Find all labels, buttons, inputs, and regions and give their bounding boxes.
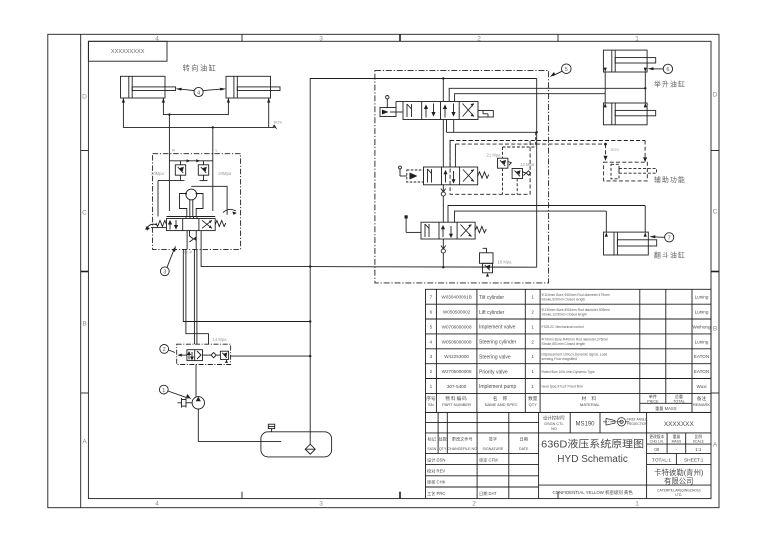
svg-text:Displacement 100cc/r,Dynamic s: Displacement 100cc/r,Dynamic signal, Loa… (542, 352, 608, 356)
parts table text (426, 293, 711, 412)
main relief valve 18 Mpa (480, 248, 494, 276)
svg-text:1: 1 (531, 295, 534, 300)
port arrow right cylinder B (267, 98, 270, 103)
svg-text:CHANGEFILE NO: CHANGEFILE NO (448, 447, 478, 451)
tilt valve pilot (405, 215, 422, 232)
svg-text:6: 6 (666, 67, 669, 73)
svg-text:校对 REV: 校对 REV (427, 468, 445, 475)
wire lift T legs (447, 120, 537, 133)
svg-text:W0706000008: W0706000008 (442, 324, 472, 329)
svg-text:SIGN: SIGN (427, 447, 436, 451)
svg-text:W2705000008: W2705000008 (442, 369, 472, 374)
node priority EF junction (309, 355, 311, 357)
svg-text:Gear type,97cc/r Fixed flow: Gear type,97cc/r Fixed flow (542, 385, 584, 389)
svg-text:-: - (676, 447, 678, 452)
svg-text:NO: NO (551, 427, 557, 431)
lift cylinder lower (603, 103, 655, 125)
svg-text:1: 1 (531, 354, 534, 359)
lift valve V1 body (403, 102, 478, 120)
svg-text:QTY: QTY (439, 447, 447, 451)
balloon 3 steering valve callout (160, 246, 175, 276)
svg-text:EATON: EATON (694, 354, 709, 359)
svg-text:7: 7 (668, 236, 671, 242)
priority valve check and relief (203, 351, 229, 363)
priority valve spool (177, 350, 202, 361)
svg-text:Luning: Luning (695, 295, 709, 300)
steering cylinder right (226, 76, 280, 98)
svg-text:2: 2 (472, 501, 476, 508)
wire aux A dashed to attachment (450, 140, 645, 142)
svg-text:W030400001B: W030400001B (441, 295, 471, 300)
svg-text:18 Mpa: 18 Mpa (498, 259, 513, 264)
balloon 6 lift cylinder callout (648, 64, 673, 73)
implement valve U5 enclosure (375, 71, 549, 283)
balloon 1 pump callout (159, 385, 191, 399)
wire aux A dashed drop (643, 141, 647, 163)
node L line junction (212, 126, 214, 128)
svg-text:L: L (216, 148, 219, 153)
wire lift P from supply (442, 79, 444, 102)
lift cylinder upper (603, 50, 655, 72)
svg-text:NAME AND SPEC: NAME AND SPEC (485, 402, 518, 407)
wire lift cylinders parallel left (604, 72, 606, 103)
frame inner border (88, 41, 711, 498)
svg-text:W050500002: W050500002 (443, 310, 471, 315)
node return-T junction (309, 265, 311, 267)
svg-text:DATE: DATE (519, 447, 529, 451)
wire tilt B drop (605, 211, 607, 232)
zone ticks (81, 34, 719, 498)
SOS signal arrow (273, 120, 283, 130)
spring right of spool (215, 221, 226, 227)
svg-text:B: B (82, 321, 86, 328)
title block grid (426, 412, 712, 498)
svg-text:C: C (82, 210, 87, 217)
first angle projection symbol (603, 418, 629, 426)
svg-text:Stroke,1226mm Closed length: Stroke,1226mm Closed length (542, 312, 588, 316)
svg-text:Steering cylinder: Steering cylinder (479, 340, 517, 346)
node return-tankleg junction (309, 320, 311, 322)
svg-text:Steering valve: Steering valve (479, 355, 511, 361)
svg-text:更改文件号: 更改文件号 (452, 435, 473, 442)
port arrow right cylinder A (227, 98, 230, 103)
node P rail bottom junction (442, 266, 444, 268)
svg-text:重量 MASS: 重量 MASS (655, 405, 677, 412)
svg-text:1: 1 (162, 388, 165, 394)
svg-text:SOS: SOS (274, 120, 283, 125)
svg-text:XXXXXXXXX: XXXXXXXXX (111, 49, 145, 55)
svg-text:MS190: MS190 (575, 421, 595, 427)
svg-text:PROJECTION: PROJECTION (627, 422, 648, 426)
aux attachment cylinder dashed (611, 164, 657, 179)
svg-text:处数: 处数 (439, 435, 448, 442)
port arrows lift cylinders (604, 68, 647, 108)
svg-text:Tilt cylinder: Tilt cylinder (479, 295, 504, 301)
steering valve U3 enclosure (153, 154, 241, 250)
svg-text:sensing,Flow magnified: sensing,Flow magnified (542, 357, 578, 361)
balloon 5 implement valve callout (550, 64, 571, 77)
svg-text:SIGNATURE: SIGNATURE (483, 447, 504, 451)
svg-text:636D液压系统原理图: 636D液压系统原理图 (541, 438, 644, 451)
svg-text:MASS: MASS (672, 440, 682, 444)
port arrows tilt cylinder (605, 232, 647, 237)
svg-text:设计 DSN: 设计 DSN (427, 456, 445, 463)
svg-text:1: 1 (430, 384, 433, 389)
pilot arc left (146, 224, 167, 231)
svg-text:MATERIAL: MATERIAL (580, 402, 600, 407)
svg-text:4: 4 (430, 339, 433, 344)
wire aux B up (454, 144, 456, 167)
balloon 4 steering cylinder callout (176, 87, 226, 96)
check valve on P rail below tilt valve (441, 246, 446, 254)
svg-text:SOS: SOS (611, 147, 620, 152)
svg-text:1: 1 (531, 324, 534, 329)
svg-text:总重: 总重 (675, 393, 683, 399)
tank breather (268, 424, 274, 432)
node aux SOS junction (604, 143, 607, 146)
svg-text:审核 CHK: 审核 CHK (427, 479, 446, 486)
svg-text:TOTAL:1: TOTAL:1 (652, 458, 671, 464)
svg-text:Rated flow 100L/min,Dynamic Ty: Rated flow 100L/min,Dynamic Type (542, 370, 595, 374)
svg-text:Stroke,929mm Closed length: Stroke,929mm Closed length (542, 298, 586, 302)
aux valve pilot box (399, 166, 424, 182)
title block text (427, 414, 705, 497)
wire cylinder rod-side loop (163, 98, 228, 115)
wire R port down to steering valve (168, 115, 170, 155)
svg-text:CATERPILLAR(QINGZHOU): CATERPILLAR(QINGZHOU) (657, 488, 700, 492)
svg-text:Φ110mm Bore,Φ60mm Rod diameter: Φ110mm Bore,Φ60mm Rod diameter,479mm (542, 293, 610, 297)
svg-text:6: 6 (430, 310, 433, 315)
tilt cylinder (604, 232, 657, 255)
svg-text:CHG LVL: CHG LVL (650, 440, 664, 444)
wire lift cylinders parallel right (644, 72, 646, 103)
wire main return / supply riser (310, 79, 537, 445)
spring right of tilt valve (475, 226, 486, 232)
revision box top-left (88, 41, 167, 61)
wire aux A up (449, 141, 451, 168)
svg-text:转向油缸: 转向油缸 (183, 64, 218, 73)
svg-text:2: 2 (477, 36, 481, 43)
wire steering P supply pair (194, 249, 197, 344)
svg-text:14 Mpa: 14 Mpa (213, 337, 228, 342)
svg-text:3: 3 (319, 501, 323, 508)
check valve pair below spool (187, 231, 201, 250)
wire lift B to cylinders (455, 94, 606, 102)
svg-text:卡特彼勒(青州): 卡特彼勒(青州) (654, 468, 703, 477)
relief valve 20Mpa left (175, 165, 185, 181)
svg-text:Lift cylinder: Lift cylinder (479, 310, 505, 316)
svg-text:比例: 比例 (695, 434, 703, 439)
svg-text:B: B (713, 326, 717, 333)
wire lift A to cylinders (449, 88, 645, 101)
aux relief block enclosure (450, 141, 530, 195)
svg-text:Luning: Luning (695, 339, 709, 344)
svg-text:Weihong: Weihong (692, 324, 710, 329)
node lift T rail junction (536, 131, 538, 133)
svg-text:PART NUMBER: PART NUMBER (442, 402, 471, 407)
svg-text:SCALE: SCALE (693, 440, 705, 444)
svg-text:1: 1 (531, 369, 534, 374)
svg-text:4: 4 (197, 90, 200, 96)
svg-text:XXXXXXX: XXXXXXX (664, 421, 695, 428)
balloon 7 tilt cylinder callout (649, 233, 673, 242)
wire tilt B to cylinder (455, 211, 607, 222)
svg-text:T L P: T L P (183, 250, 193, 255)
svg-text:DSGN CTL: DSGN CTL (544, 422, 563, 426)
suction strainer (305, 444, 315, 454)
svg-text:设计控制号: 设计控制号 (543, 414, 566, 421)
svg-text:2: 2 (430, 369, 433, 374)
svg-text:20Mpa: 20Mpa (218, 171, 231, 176)
svg-text:A: A (82, 439, 87, 446)
check valve on P rail below aux valve (441, 189, 446, 197)
svg-text:2: 2 (531, 310, 534, 315)
wire aux B dashed to attachment (455, 143, 605, 145)
node lift A junction (644, 87, 646, 89)
wire steering T return to tank line (201, 243, 310, 267)
tilt valve V3 body (421, 222, 475, 239)
svg-text:2: 2 (163, 347, 166, 353)
parts table header (426, 393, 710, 412)
node R line junction (168, 113, 170, 115)
svg-text:HYD Schematic: HYD Schematic (557, 454, 628, 465)
aux valve V2 body (424, 167, 478, 185)
port arrow left cylinder A (122, 98, 125, 103)
svg-text:307-5400: 307-5400 (447, 384, 467, 389)
svg-text:7: 7 (430, 295, 433, 300)
svg-text:CONFIDENTIAL YELLOW 机密级别 黄色: CONFIDENTIAL YELLOW 机密级别 黄色 (552, 489, 633, 496)
svg-text:物料编码: 物料编码 (445, 395, 467, 402)
parts table grid (426, 289, 712, 412)
priority valve U2 enclosure (177, 344, 231, 364)
svg-text:审定 CFM: 审定 CFM (479, 456, 498, 463)
svg-text:TOTAL: TOTAL (673, 399, 685, 403)
svg-text:3: 3 (319, 36, 323, 43)
svg-text:W0506000008: W0506000008 (442, 339, 472, 344)
svg-text:D: D (713, 92, 718, 99)
lift valve detent (478, 111, 493, 118)
wire pump to priority valve (195, 365, 197, 397)
svg-text:D: D (82, 94, 87, 101)
aux relief block dashed pipes (503, 132, 536, 194)
svg-text:序号: 序号 (426, 395, 436, 402)
aux attachment enclosure (604, 162, 648, 181)
svg-text:PIECE: PIECE (647, 399, 659, 403)
zone labels (82, 36, 718, 508)
relief valve 20Mpa right (198, 165, 208, 181)
relief valve 12 Mpa (512, 169, 531, 179)
pilot arc right (223, 209, 237, 215)
wire tilt A to cylinder (448, 206, 645, 223)
svg-text:C: C (713, 209, 718, 216)
port arrow left cylinder B (162, 98, 165, 103)
svg-text:名 称: 名 称 (493, 395, 509, 402)
svg-text:A: A (713, 442, 718, 449)
svg-text:3: 3 (430, 354, 433, 359)
wire P rail down (442, 120, 444, 268)
svg-text:材 料: 材 料 (582, 395, 598, 402)
svg-text:3: 3 (163, 270, 166, 276)
svg-text:W42253000: W42253000 (444, 354, 469, 359)
svg-text:Luning: Luning (695, 310, 709, 315)
svg-text:EATON: EATON (694, 369, 709, 374)
spring left of spool (156, 221, 167, 227)
frame outer border (48, 34, 719, 507)
svg-text:4: 4 (155, 501, 159, 508)
svg-text:REMARK: REMARK (693, 402, 710, 407)
svg-text:Implement pump: Implement pump (479, 384, 516, 390)
svg-text:工艺 PRC: 工艺 PRC (427, 491, 445, 496)
wire right tank rail (536, 79, 538, 268)
wire bottom return rail (310, 266, 537, 269)
svg-text:5: 5 (430, 324, 433, 329)
svg-text:SN: SN (428, 402, 434, 407)
spring right of aux valve (478, 172, 489, 178)
svg-text:Stroke,651mm Closed length: Stroke,651mm Closed length (542, 342, 586, 346)
svg-text:备注: 备注 (697, 395, 707, 402)
svg-text:21 Mpa: 21 Mpa (487, 152, 502, 157)
wire aux B dashed drop (604, 144, 608, 161)
svg-text:20Mpa: 20Mpa (151, 171, 164, 176)
wire priority EF output to return (231, 355, 311, 357)
steering spool valve (167, 217, 216, 231)
pump P1 (178, 397, 205, 409)
wire crossover relief line (158, 155, 213, 217)
svg-text:F325.2C Mechanical control: F325.2C Mechanical control (542, 325, 584, 329)
svg-text:Implement valve: Implement valve (479, 325, 516, 331)
svg-text:SHEET:1: SHEET:1 (684, 458, 704, 464)
svg-text:1: 1 (531, 384, 534, 389)
svg-text:QTY: QTY (529, 402, 538, 407)
relief valve 21 Mpa (498, 158, 512, 168)
balloon 2 priority valve callout (160, 345, 175, 354)
svg-text:有限公司: 有限公司 (664, 477, 694, 486)
gerotor metering unit (169, 186, 227, 217)
wire L port down to steering valve (212, 127, 214, 155)
svg-text:1: 1 (635, 36, 639, 43)
lift valve lever (380, 96, 403, 117)
wire tilt A drop (644, 206, 646, 233)
svg-text:日期 DAT: 日期 DAT (479, 491, 497, 497)
svg-text:签字: 签字 (489, 435, 497, 441)
node lift P junction (442, 77, 444, 79)
svg-text:LTD.: LTD. (675, 493, 682, 497)
svg-text:FIRST ANGLE: FIRST ANGLE (627, 417, 648, 421)
svg-text:12 Mpa: 12 Mpa (520, 162, 535, 167)
svg-text:1: 1 (635, 501, 639, 508)
svg-text:5: 5 (565, 67, 568, 73)
steering cylinder left (121, 76, 176, 98)
svg-text:更改版本: 更改版本 (649, 434, 664, 439)
svg-text:Wuxi: Wuxi (696, 384, 706, 389)
svg-text:辅助功能: 辅助功能 (654, 175, 686, 184)
svg-text:00: 00 (654, 447, 659, 452)
svg-text:重量: 重量 (673, 434, 681, 439)
wire steering tank leg (183, 249, 310, 321)
svg-text:日期: 日期 (520, 436, 528, 442)
wire pump suction from tank (198, 409, 281, 441)
tank T1 (261, 432, 332, 457)
svg-text:Φ130mm Bore,Φ63mm Rod diameter: Φ130mm Bore,Φ63mm Rod diameter,905mm (542, 308, 611, 312)
svg-text:翻斗油缸: 翻斗油缸 (654, 250, 686, 259)
wire right cylinder to head loop (268, 98, 270, 127)
wire cylinder head-side loop (123, 98, 274, 127)
svg-text:Φ70mm Bore,Φ40mm Rod diameter,: Φ70mm Bore,Φ40mm Rod diameter,276mm (542, 338, 609, 342)
svg-text:1:1: 1:1 (695, 447, 702, 452)
svg-text:2: 2 (531, 339, 534, 344)
wire steering LS to priority pilot (186, 249, 209, 344)
svg-text:R: R (172, 148, 175, 153)
svg-text:举升油缸: 举升油缸 (654, 79, 686, 88)
svg-text:数量: 数量 (528, 395, 538, 402)
svg-text:Priority valve: Priority valve (479, 369, 508, 375)
svg-text:标记: 标记 (428, 435, 437, 442)
